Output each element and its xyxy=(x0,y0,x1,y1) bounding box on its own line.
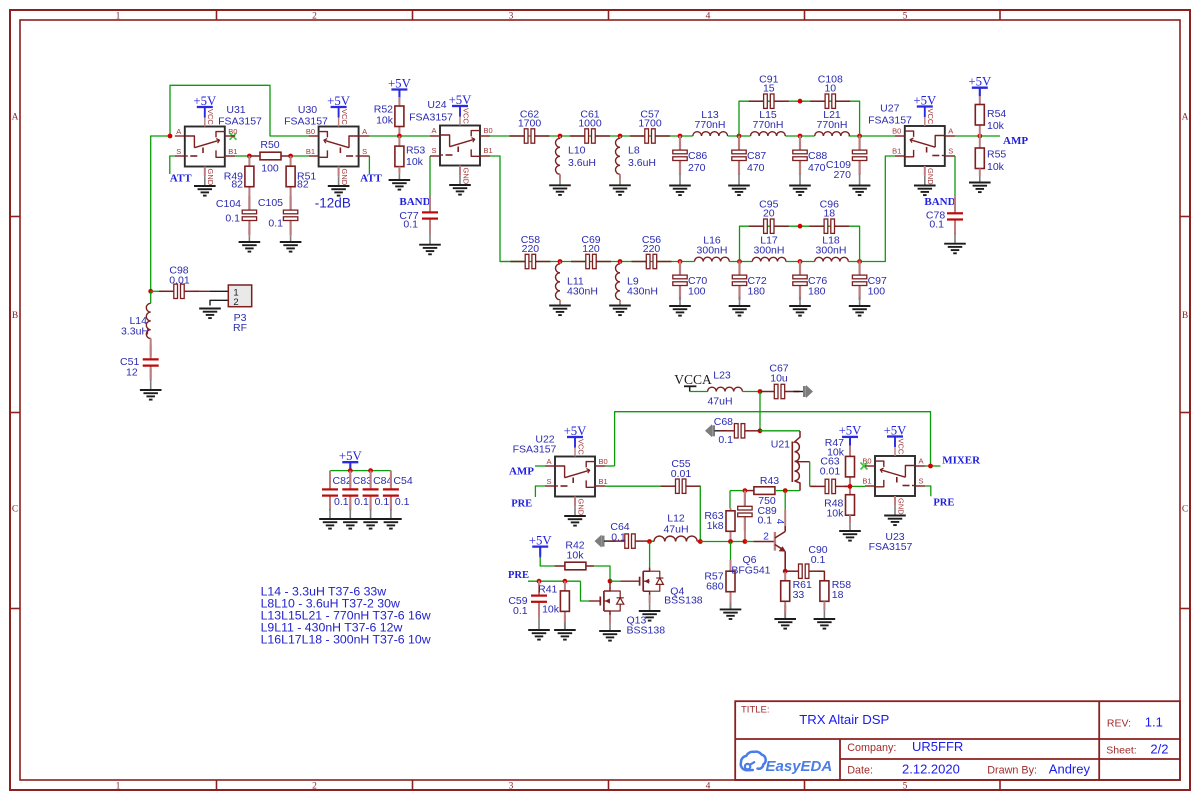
svg-text:BAND: BAND xyxy=(924,196,955,208)
pin stub U24.B0 xyxy=(480,135,490,137)
transistor Q4 BSS138 xyxy=(639,577,641,586)
svg-text:10k: 10k xyxy=(376,115,394,127)
pin stub U24.S xyxy=(430,155,440,157)
svg-text:430nH: 430nH xyxy=(627,286,658,298)
wire PRE row xyxy=(528,580,581,582)
no-connect X at U31.B0 xyxy=(230,133,237,140)
ground at P3 pin2 xyxy=(199,308,221,310)
svg-text:770nH: 770nH xyxy=(817,119,848,131)
junction C83 top xyxy=(348,468,353,473)
svg-text:+5V: +5V xyxy=(529,533,553,547)
pin stub U22.S xyxy=(545,485,555,487)
junction C86 top xyxy=(678,134,683,139)
ground below C77 xyxy=(419,244,441,246)
capacitor C84 xyxy=(370,475,372,490)
resistor R48 xyxy=(846,495,855,516)
frame tick top xyxy=(608,10,610,20)
resistor R63 xyxy=(726,511,735,532)
analog switch U27 FSA3157 switch detail xyxy=(935,136,945,148)
junction R49 top xyxy=(247,154,252,159)
capacitor C51 xyxy=(150,345,152,360)
analog switch U30 FSA3157 switch detail xyxy=(349,136,359,148)
resistor R53 xyxy=(395,146,404,167)
analog switch U23 FSA3157 ground xyxy=(884,515,906,517)
resistor R57 leads xyxy=(730,542,732,561)
svg-text:+5V: +5V xyxy=(388,76,412,90)
wire node to U23.B1 xyxy=(850,485,865,487)
junction C84 top xyxy=(368,468,373,473)
svg-text:18: 18 xyxy=(832,589,844,601)
svg-text:FSA3157: FSA3157 xyxy=(513,444,557,456)
svg-text:270: 270 xyxy=(833,169,851,181)
ground below L11 xyxy=(549,305,571,307)
transformer U21 xyxy=(791,442,793,483)
junction C89 bottom xyxy=(743,539,748,544)
pin stub U23.B0 xyxy=(865,465,875,467)
wire C55 to L12 row xyxy=(699,486,701,541)
resistor R54 xyxy=(975,105,984,126)
svg-text:L16L17L18 - 300nH T37-6 10w: L16L17L18 - 300nH T37-6 10w xyxy=(261,633,431,647)
pin stub U30.S xyxy=(359,155,370,157)
svg-text:3.6uH: 3.6uH xyxy=(628,157,656,169)
inductor L9 xyxy=(616,264,620,300)
analog switch U27 FSA3157 ground xyxy=(914,185,936,187)
junction R57/R63 xyxy=(728,539,733,544)
svg-text:10k: 10k xyxy=(827,447,845,459)
analog switch U24 FSA3157 switch detail xyxy=(440,135,450,147)
frame tick bottom xyxy=(216,780,218,790)
pin stub U31.B1 xyxy=(225,155,235,157)
pin stub U27.B1 xyxy=(895,155,905,157)
svg-text:680: 680 xyxy=(706,581,724,593)
wire U22.B0 to U23.A long horizontal xyxy=(615,412,931,466)
svg-text:R50: R50 xyxy=(260,139,279,151)
svg-text:C83: C83 xyxy=(353,475,372,487)
ground below L10 xyxy=(549,184,571,186)
svg-text:10k: 10k xyxy=(406,156,424,168)
svg-text:L23: L23 xyxy=(713,370,731,382)
analog switch U23 FSA3157 switch detail xyxy=(905,466,915,478)
svg-text:B: B xyxy=(1182,311,1188,321)
wire filter row 2 xyxy=(500,261,695,263)
resistor R55 xyxy=(975,148,984,169)
svg-text:0.1: 0.1 xyxy=(395,496,410,508)
svg-text:C88: C88 xyxy=(808,150,827,162)
svg-text:5: 5 xyxy=(903,781,908,791)
svg-text:+5V: +5V xyxy=(884,423,908,437)
wire C68 node to U21 top xyxy=(760,430,800,432)
capacitor C78 lead xyxy=(954,196,956,210)
svg-text:BFG541: BFG541 xyxy=(731,564,770,576)
svg-text:+5V: +5V xyxy=(564,424,588,438)
frame tick bottom xyxy=(804,780,806,790)
svg-text:3.3uH: 3.3uH xyxy=(121,326,149,338)
svg-text:0.1: 0.1 xyxy=(758,515,773,527)
frame tick left xyxy=(10,608,20,610)
wire R51 to U30.B1 xyxy=(291,155,309,157)
wire R42 to PRE row xyxy=(594,566,610,581)
svg-text:R53: R53 xyxy=(406,145,425,157)
capacitor C89 xyxy=(744,492,746,507)
wire C91/C108 branch xyxy=(739,101,860,136)
resistor R61 xyxy=(781,581,790,602)
svg-text:10k: 10k xyxy=(542,604,560,616)
analog switch U30 FSA3157 ground xyxy=(328,185,350,187)
ground below C72 xyxy=(729,305,751,307)
capacitor C84 lead xyxy=(370,471,372,487)
junction C97/L18 xyxy=(857,259,862,264)
junction VCCA node xyxy=(758,389,763,394)
capacitor C59 xyxy=(538,581,540,596)
no-connect X at U23.B0 xyxy=(861,463,868,470)
svg-text:+5V: +5V xyxy=(193,94,217,108)
svg-text:1: 1 xyxy=(116,11,121,21)
svg-text:0.1: 0.1 xyxy=(225,213,240,225)
svg-text:A: A xyxy=(431,126,436,135)
capacitor C105 xyxy=(290,196,292,211)
wire tap to C63 xyxy=(810,485,817,487)
analog switch U30 FSA3157 xyxy=(319,127,359,167)
svg-text:+5V: +5V xyxy=(968,75,992,89)
svg-text:2: 2 xyxy=(312,11,317,21)
svg-text:100: 100 xyxy=(261,163,279,175)
frame tick bottom xyxy=(608,780,610,790)
capacitor C108 xyxy=(810,100,825,102)
capacitor C82 xyxy=(329,475,331,490)
ground flag left of C68 xyxy=(705,424,712,437)
resistor R47 xyxy=(846,456,855,477)
ground below C70 xyxy=(669,305,691,307)
inductor L16 xyxy=(695,257,730,261)
wire C63 to R47/R48 node xyxy=(844,485,850,487)
svg-text:B0: B0 xyxy=(484,126,493,135)
capacitor C78 xyxy=(954,198,956,213)
svg-text:2: 2 xyxy=(312,781,317,791)
inductor L12 xyxy=(654,536,697,541)
resistor R50 xyxy=(260,152,281,160)
svg-text:L8: L8 xyxy=(628,145,640,157)
svg-text:C: C xyxy=(1182,505,1188,515)
resistor R52 leads xyxy=(398,90,400,98)
svg-text:0.1: 0.1 xyxy=(513,605,528,617)
svg-text:C86: C86 xyxy=(688,150,707,162)
wire P3 pin2 to ground xyxy=(210,300,228,305)
svg-text:Drawn By:: Drawn By: xyxy=(987,765,1037,777)
svg-text:+5V: +5V xyxy=(839,424,863,438)
capacitor C51 lead xyxy=(150,339,152,357)
wire PRE node to Q4 gate xyxy=(610,580,620,582)
inductor L18 xyxy=(815,257,849,261)
capacitor C55 xyxy=(661,485,676,487)
junction C95/C96 xyxy=(798,224,803,229)
svg-text:Date:: Date: xyxy=(847,765,873,777)
junction Q4 drain/L12 xyxy=(647,539,652,544)
svg-text:S: S xyxy=(362,147,367,156)
junction C72/L16 xyxy=(737,259,742,264)
svg-text:0.1: 0.1 xyxy=(403,219,418,231)
junction R47/R48/C63/U23.B1 xyxy=(848,484,853,489)
capacitor C77 xyxy=(429,198,431,213)
svg-text:4: 4 xyxy=(706,781,711,791)
junction C91/C108 xyxy=(798,99,803,104)
transistor Q6 BFG541 xyxy=(774,532,776,551)
wire filter row 1 xyxy=(490,135,693,137)
transistor Q13 BSS138 xyxy=(599,597,601,606)
pin stub U23.B1 xyxy=(865,485,875,487)
svg-text:B0: B0 xyxy=(228,127,237,136)
wire U22.S to PRE xyxy=(535,486,545,497)
junction Q6 emitter node xyxy=(783,569,788,574)
resistor R58 xyxy=(820,581,829,602)
junction C68 node xyxy=(758,428,763,433)
svg-text:10: 10 xyxy=(824,83,836,95)
svg-text:B0: B0 xyxy=(599,457,608,466)
svg-text:GND: GND xyxy=(206,169,215,186)
ground flag left of C64 xyxy=(595,535,602,548)
svg-text:A: A xyxy=(546,457,551,466)
ground below C84 xyxy=(360,518,382,520)
junction C76/L17 xyxy=(798,259,803,264)
junction R51 top xyxy=(288,154,293,159)
wire row1 L13-L15 xyxy=(728,135,751,137)
svg-text:VCC: VCC xyxy=(461,108,470,124)
svg-text:0.01: 0.01 xyxy=(169,274,190,286)
pin stub U30.A xyxy=(359,135,370,137)
svg-text:VCC: VCC xyxy=(340,109,349,125)
junction L10 top xyxy=(558,134,563,139)
wire L12 row to R57/R63 xyxy=(700,541,730,543)
svg-text:FSA3157: FSA3157 xyxy=(868,115,912,127)
svg-text:12: 12 xyxy=(126,366,138,378)
capacitor C97 xyxy=(858,261,860,276)
svg-text:10k: 10k xyxy=(567,550,585,562)
pin stub U31.S xyxy=(175,155,185,157)
svg-text:C105: C105 xyxy=(258,197,283,209)
wire row2 L16-L17 xyxy=(729,261,752,263)
svg-text:Company:: Company: xyxy=(847,742,896,754)
svg-text:S: S xyxy=(176,147,181,156)
capacitor C87 xyxy=(738,136,740,151)
junction C55/L12 xyxy=(698,539,703,544)
svg-text:VCC: VCC xyxy=(926,109,935,125)
resistor R57 xyxy=(726,571,735,592)
wire ground flag to C64 xyxy=(604,540,616,542)
capacitor C86 xyxy=(679,136,681,151)
inductor L11 xyxy=(556,264,561,300)
svg-text:VCC: VCC xyxy=(576,439,585,455)
svg-text:VCC: VCC xyxy=(206,109,215,125)
junction R54/R55 node xyxy=(977,134,982,139)
svg-text:120: 120 xyxy=(582,243,600,255)
analog switch U22 FSA3157 switch detail xyxy=(555,466,565,478)
resistor R49 leads xyxy=(248,156,250,166)
wire L12 to C55 node xyxy=(697,541,700,543)
analog switch U27 FSA3157 xyxy=(905,126,945,166)
wire VCCA node down to C68 node xyxy=(759,392,761,431)
ground below R58 xyxy=(814,618,836,620)
svg-text:770nH: 770nH xyxy=(753,119,784,131)
svg-text:L10: L10 xyxy=(568,145,586,157)
frame tick left xyxy=(10,216,20,218)
frame tick bottom xyxy=(999,780,1001,790)
svg-text:Andrey: Andrey xyxy=(1049,762,1091,777)
pin stub U30.B0 xyxy=(309,135,319,137)
wire PRE row to Q13 gate xyxy=(581,581,590,601)
svg-text:33: 33 xyxy=(793,589,805,601)
capacitor C95 xyxy=(749,225,764,227)
wire C64 to L12 xyxy=(648,540,654,542)
capacitor C61 xyxy=(570,135,585,137)
resistor R42 leads xyxy=(554,565,565,567)
EasyEDA logo cloud xyxy=(741,752,766,771)
capacitor C62 xyxy=(510,135,525,137)
svg-text:0.1: 0.1 xyxy=(929,219,944,231)
Q6 emitter xyxy=(775,545,784,551)
wire U23.A to MIXER xyxy=(925,465,940,467)
wire L23 to C67 junction xyxy=(743,391,761,393)
svg-text:1k8: 1k8 xyxy=(707,520,724,532)
svg-text:AMP: AMP xyxy=(1003,135,1028,147)
ground below C51 xyxy=(140,389,162,391)
wire VCCA to L23 xyxy=(690,391,708,393)
svg-text:FSA3157: FSA3157 xyxy=(409,111,453,123)
junction C59 top xyxy=(537,579,542,584)
resistor R51 xyxy=(286,166,295,187)
junction L11 top xyxy=(558,259,563,264)
svg-text:A: A xyxy=(362,127,367,136)
svg-text:4: 4 xyxy=(706,11,711,21)
capacitor C91 xyxy=(749,100,764,102)
wire RF node to C98 xyxy=(151,290,166,292)
svg-text:VCCA: VCCA xyxy=(674,372,712,387)
svg-text:R54: R54 xyxy=(987,108,1006,120)
resistor R53 leads xyxy=(398,136,400,146)
ground below C97 xyxy=(849,305,871,307)
frame tick top xyxy=(412,10,414,20)
svg-text:FSA3157: FSA3157 xyxy=(284,116,328,128)
capacitor C56 xyxy=(632,261,647,263)
svg-text:20: 20 xyxy=(763,208,775,220)
ground below C76 xyxy=(789,305,811,307)
ground below R57 xyxy=(720,608,742,610)
svg-text:TITLE:: TITLE: xyxy=(741,705,770,716)
svg-text:15: 15 xyxy=(763,83,775,95)
junction RF node xyxy=(148,289,153,294)
svg-text:2: 2 xyxy=(763,531,769,542)
svg-text:C104: C104 xyxy=(216,198,241,210)
pin stub U27.B0 xyxy=(895,135,905,137)
ground below C105 xyxy=(280,241,302,243)
svg-text:S: S xyxy=(546,477,551,486)
svg-text:B1: B1 xyxy=(306,147,315,156)
svg-text:GND: GND xyxy=(576,499,585,516)
capacitor C58 xyxy=(510,261,525,263)
svg-text:1000: 1000 xyxy=(578,118,602,130)
analog switch U24 FSA3157 xyxy=(440,126,480,166)
pin stub U22.A xyxy=(545,465,555,467)
svg-text:0.1: 0.1 xyxy=(334,496,349,508)
svg-text:+5V: +5V xyxy=(327,94,351,108)
wire U27.S to BAND/C78 xyxy=(954,156,956,196)
svg-text:B1: B1 xyxy=(862,477,871,486)
resistor R51 leads xyxy=(290,156,292,166)
svg-text:U30: U30 xyxy=(298,104,317,116)
capacitor C76 xyxy=(799,261,801,276)
inductor L14 xyxy=(146,303,150,338)
inductor L13 xyxy=(693,132,728,136)
wire ground flag to C68 xyxy=(715,430,726,432)
junction C70 top xyxy=(678,259,683,264)
svg-text:MIXER: MIXER xyxy=(942,454,981,466)
resistor R41 xyxy=(560,591,569,612)
ground below C78 xyxy=(944,243,966,245)
svg-text:C68: C68 xyxy=(714,416,733,428)
frame tick top xyxy=(216,10,218,20)
capacitor C54 xyxy=(390,475,392,490)
junction R43/Q6 collector xyxy=(783,488,788,493)
ground below L8 xyxy=(609,184,631,186)
svg-text:B1: B1 xyxy=(228,147,237,156)
pin stub U24.B1 xyxy=(480,155,490,157)
capacitor C59 lead xyxy=(538,581,540,592)
analog switch U31 FSA3157 xyxy=(185,127,225,167)
resistor R61 leads xyxy=(784,571,786,581)
svg-text:R41: R41 xyxy=(538,584,557,596)
svg-text:BAND: BAND xyxy=(399,196,430,208)
svg-text:A: A xyxy=(12,113,19,123)
wire U22.B0 riser xyxy=(605,465,615,467)
wire R43 row xyxy=(730,490,745,492)
resistor R50 leads xyxy=(249,155,260,157)
wire C90 to R58 xyxy=(818,571,825,581)
capacitor C89 leads xyxy=(744,491,746,506)
svg-text:GND: GND xyxy=(926,168,935,185)
wire U21 center tap xyxy=(797,461,810,463)
wire U31.A to U30.B0 loop xyxy=(170,85,309,136)
analog switch U31 FSA3157 ground xyxy=(194,185,216,187)
pin stub U22.B0 xyxy=(595,465,605,467)
svg-text:47uH: 47uH xyxy=(663,524,688,536)
svg-text:PRE: PRE xyxy=(933,498,954,509)
resistor R55 leads xyxy=(979,136,981,148)
wire U31.S to ATT xyxy=(170,156,175,174)
junction C109/L21 xyxy=(857,134,862,139)
wire row1 to U27.B0 xyxy=(849,135,895,137)
svg-text:S: S xyxy=(948,147,953,156)
wire C67 to ground flag xyxy=(794,391,804,393)
pin stub U24.A xyxy=(430,135,440,137)
svg-text:UR5FFR: UR5FFR xyxy=(912,739,963,754)
capacitor C54 lead xyxy=(390,471,392,487)
svg-text:-12dB: -12dB xyxy=(315,196,351,211)
resistor R52 xyxy=(395,106,404,127)
svg-text:REV:: REV: xyxy=(1107,717,1131,729)
frame tick top xyxy=(999,10,1001,20)
junction C87/L13 xyxy=(737,134,742,139)
capacitor C109 xyxy=(858,136,860,151)
wire Q6 emitter to C90 xyxy=(785,570,790,572)
svg-text:U21: U21 xyxy=(771,439,790,451)
svg-text:RF: RF xyxy=(233,322,247,334)
capacitor C90 xyxy=(784,570,799,572)
pin stub U23.A xyxy=(915,465,925,467)
frame tick right xyxy=(1180,216,1190,218)
wire C98 to P3 pin1 xyxy=(193,290,210,292)
svg-text:82: 82 xyxy=(231,179,243,191)
inductor L23 xyxy=(708,387,743,391)
svg-text:FSA3157: FSA3157 xyxy=(869,541,913,553)
capacitor C83 xyxy=(349,475,351,490)
